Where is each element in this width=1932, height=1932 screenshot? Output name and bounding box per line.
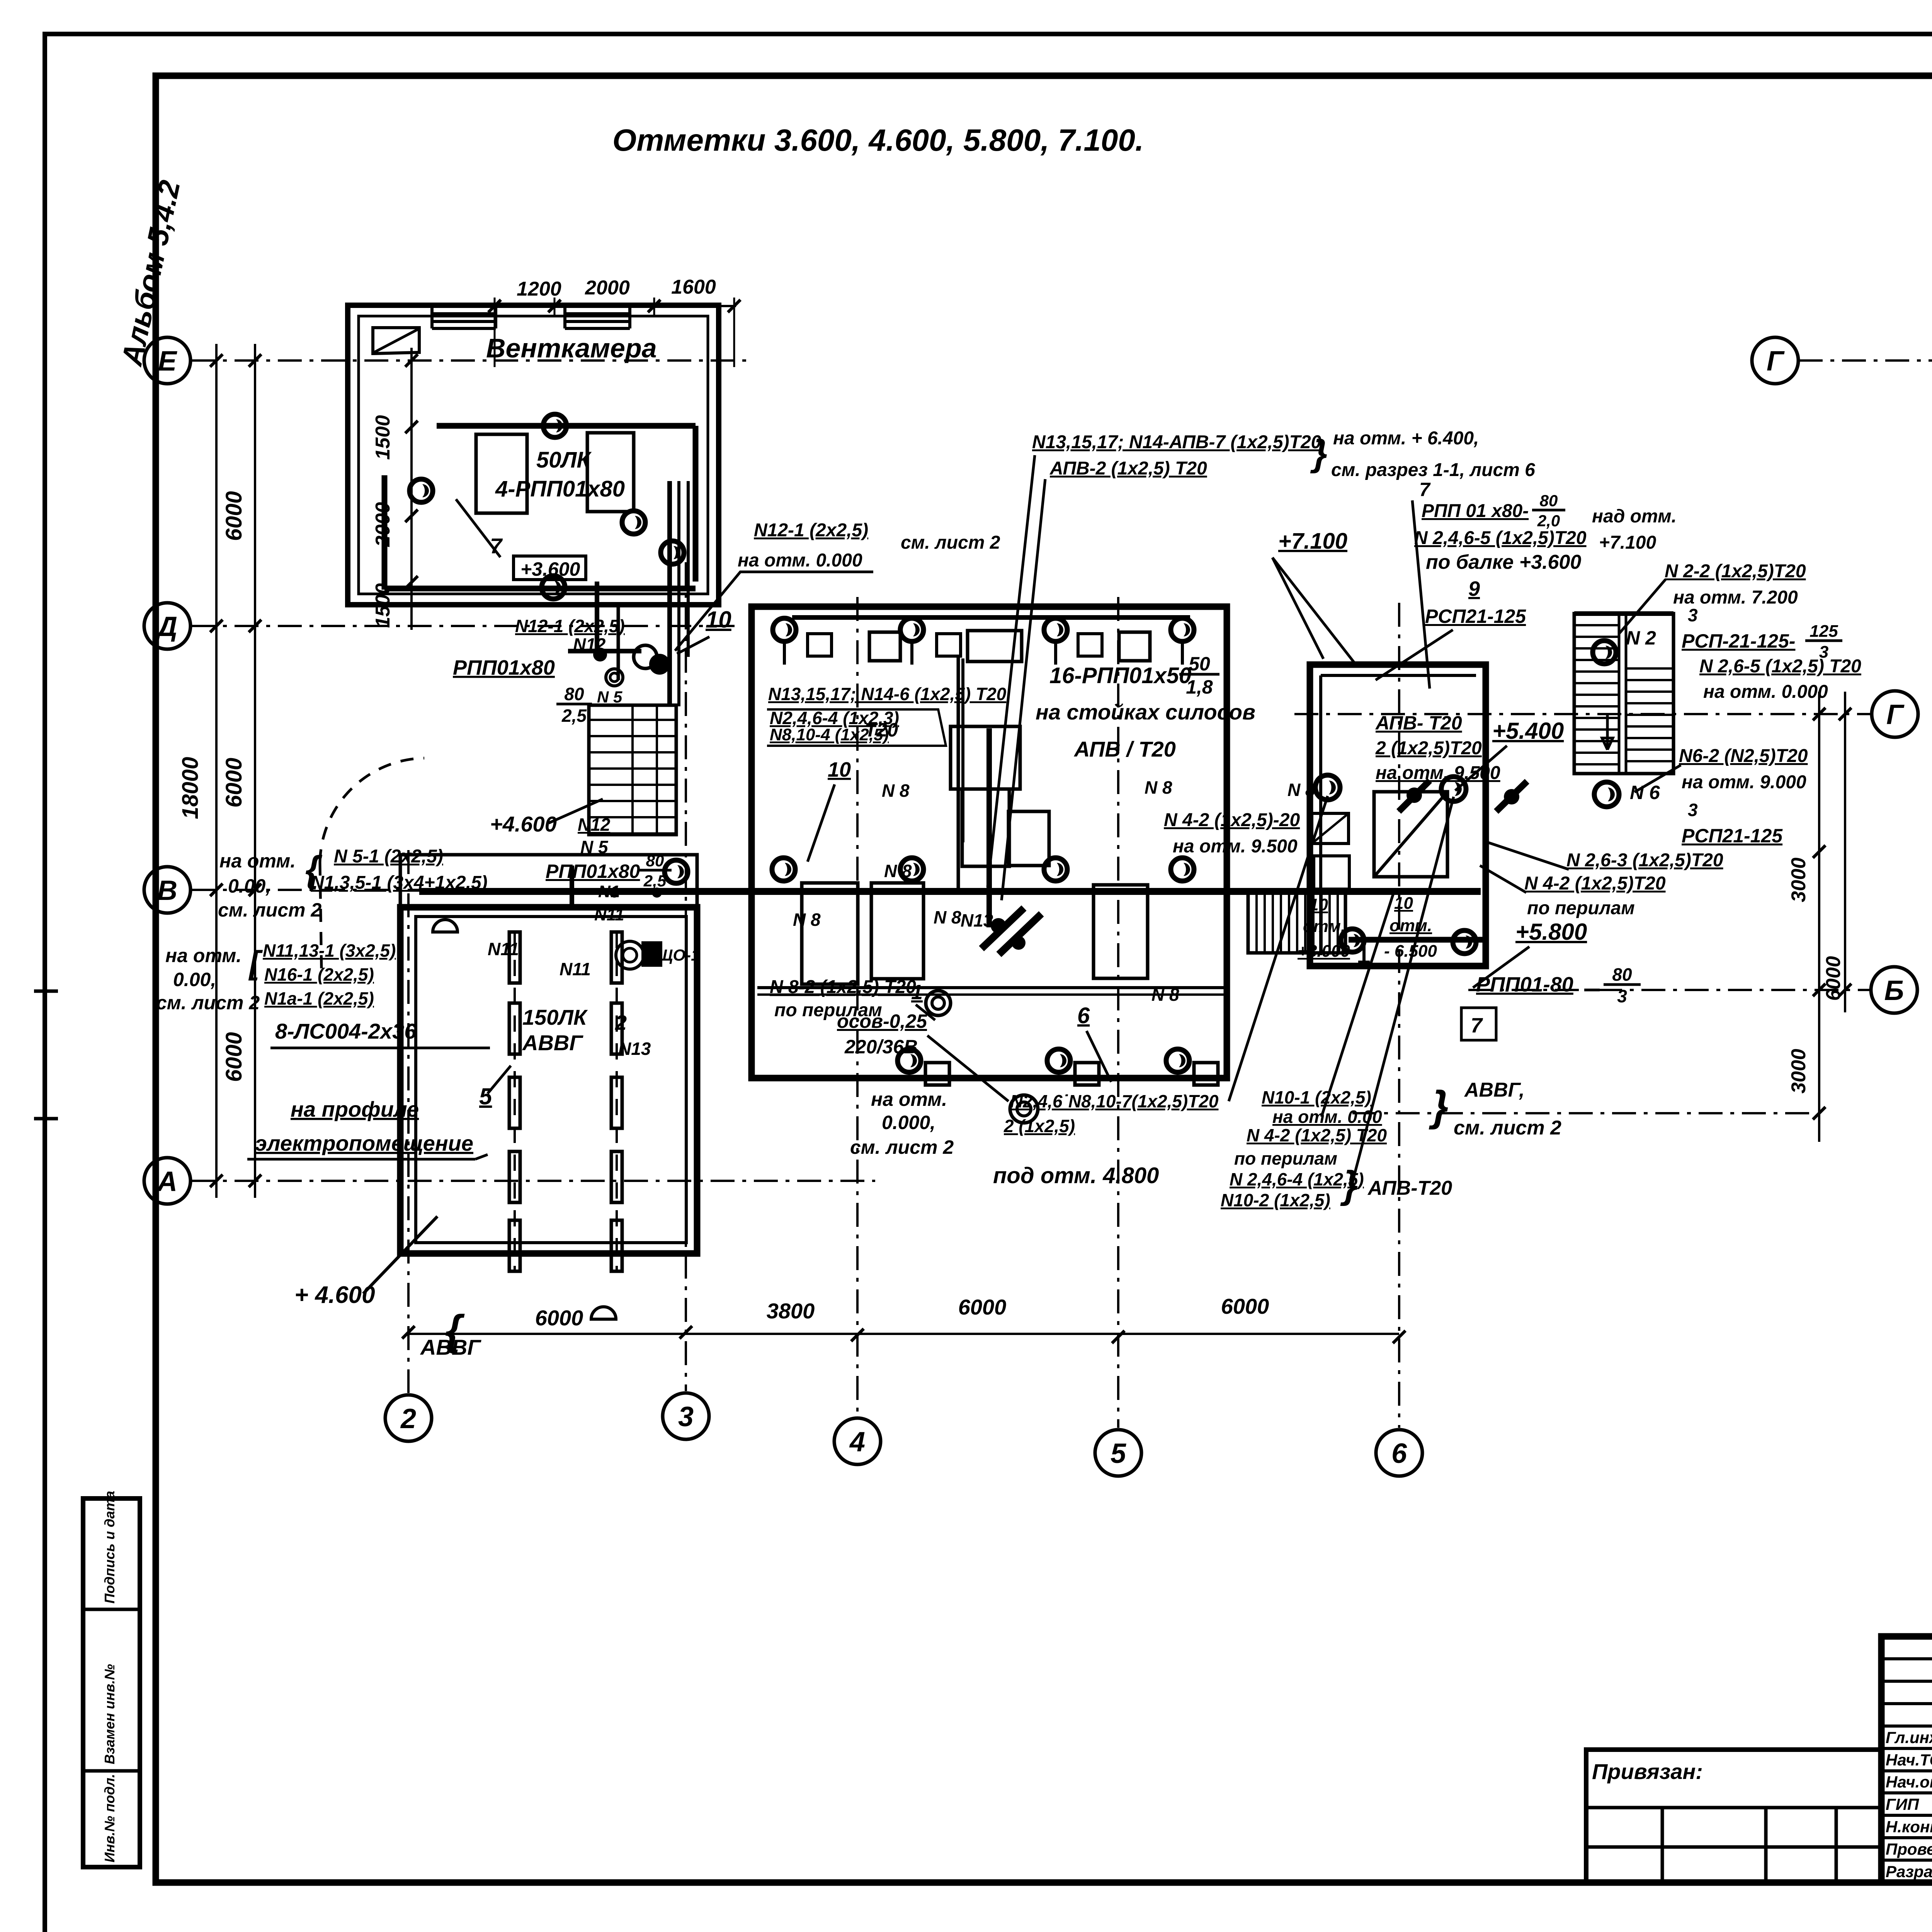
svg-text:1200: 1200 bbox=[517, 278, 561, 300]
svg-text:осов-0,25: осов-0,25 bbox=[837, 1010, 927, 1032]
silo plan outline bbox=[752, 607, 1227, 1078]
stairs right of section bbox=[1574, 614, 1673, 774]
svg-text:N13: N13 bbox=[618, 1039, 651, 1059]
svg-text:50ЛК: 50ЛК bbox=[536, 447, 592, 473]
silo top column flags bbox=[808, 634, 832, 656]
svg-text:Е: Е bbox=[158, 346, 177, 377]
silo bottom flags bbox=[925, 1063, 949, 1085]
ventkamera window hatch 2 bbox=[565, 304, 630, 308]
svg-text:РСП21-125: РСП21-125 bbox=[1425, 605, 1526, 627]
svg-text:0.00,: 0.00, bbox=[173, 969, 216, 990]
fold mark upper bbox=[34, 990, 58, 993]
luminaire bar rows bbox=[509, 932, 520, 983]
svg-text:3000: 3000 bbox=[1787, 1049, 1810, 1094]
dark junction blobs bbox=[1406, 787, 1422, 803]
svg-text:2: 2 bbox=[400, 1403, 416, 1434]
svg-text:1: 1 bbox=[911, 981, 923, 1004]
svg-text:3: 3 bbox=[1617, 986, 1627, 1006]
svg-text:N10-2 (1х2,5): N10-2 (1х2,5) bbox=[1221, 1190, 1330, 1210]
svg-text:ЩО-1: ЩО-1 bbox=[657, 946, 700, 964]
svg-text:электропомещение: электропомещение bbox=[255, 1131, 473, 1155]
axis line A bbox=[191, 1180, 875, 1182]
ventkamera cable run left bbox=[382, 475, 388, 590]
svg-text:N 5-1 (2х2,5): N 5-1 (2х2,5) bbox=[334, 846, 443, 867]
svg-text:4: 4 bbox=[849, 1427, 865, 1458]
svg-text:см. разрез 1-1, лист 6: см. разрез 1-1, лист 6 bbox=[1331, 460, 1535, 480]
svg-text:АПВ / Т20: АПВ / Т20 bbox=[1073, 737, 1176, 761]
stamp signature grid bbox=[1881, 1657, 1932, 1660]
callout 7 box bbox=[1461, 1008, 1496, 1040]
axis circle B bbox=[1871, 967, 1917, 1013]
svg-text:6000: 6000 bbox=[535, 1306, 583, 1330]
corridor wall lines bbox=[667, 481, 672, 706]
svg-text:16-РПП01х50: 16-РПП01х50 bbox=[1049, 663, 1191, 688]
axis line E bbox=[191, 359, 748, 362]
privyazan block bbox=[1586, 1750, 1881, 1883]
svg-text:Подпись и дата: Подпись и дата bbox=[102, 1491, 117, 1604]
dimension chain 6000x3 vertical bbox=[254, 344, 256, 1198]
svg-text:Разраб.: Разраб. bbox=[1886, 1862, 1932, 1881]
dimension chain right vertical 3000-3000 bbox=[1818, 692, 1820, 1142]
svg-text:80: 80 bbox=[564, 684, 584, 704]
column axis 6 line bbox=[1398, 603, 1400, 1428]
svg-text:6: 6 bbox=[1077, 1003, 1090, 1028]
svg-text:см. лист 2: см. лист 2 bbox=[218, 899, 321, 921]
svg-text:10: 10 bbox=[828, 758, 851, 781]
svg-text:N13: N13 bbox=[961, 910, 993, 930]
svg-text:N10-1 (2х2,5): N10-1 (2х2,5) bbox=[1262, 1087, 1371, 1107]
panel circle bbox=[616, 941, 644, 969]
right section bottom cable bbox=[1349, 937, 1486, 943]
svg-text:АВВГ,: АВВГ, bbox=[1464, 1079, 1525, 1101]
svg-text:по перилам: по перилам bbox=[1527, 898, 1635, 918]
silo plan inner top line bbox=[792, 615, 1190, 620]
right section luminaires bbox=[1315, 775, 1340, 800]
svg-text:6000: 6000 bbox=[1221, 1294, 1269, 1318]
leader to ventkamera bbox=[675, 572, 873, 651]
dimension chain right vertical 6000 bbox=[1844, 692, 1846, 1012]
dimension chain bottom 6000-3800-6000-6000 bbox=[408, 1333, 1399, 1335]
svg-text:на отм.: на отм. bbox=[165, 945, 241, 966]
svg-text:3: 3 bbox=[1688, 605, 1698, 625]
svg-text:0.000,: 0.000, bbox=[882, 1112, 935, 1133]
svg-text:на отм.: на отм. bbox=[219, 850, 296, 872]
axis circle A bbox=[144, 1158, 190, 1204]
column axis 3 line bbox=[685, 562, 687, 1391]
stairs upper landing bbox=[1574, 611, 1673, 616]
electro building upper band bbox=[400, 855, 697, 907]
svg-text:0.00,: 0.00, bbox=[228, 875, 271, 897]
svg-text:125: 125 bbox=[1810, 622, 1838, 641]
svg-text:Провер.: Провер. bbox=[1886, 1840, 1932, 1858]
svg-text:N 2-2 (1х2,5)Т20: N 2-2 (1х2,5)Т20 bbox=[1665, 561, 1806, 582]
svg-text:3: 3 bbox=[1688, 800, 1698, 820]
silo column riser stubs bbox=[783, 641, 786, 665]
svg-text:2,0: 2,0 bbox=[1537, 512, 1560, 530]
svg-text:6000: 6000 bbox=[1822, 956, 1845, 1001]
ventkamera corner detail bbox=[373, 328, 419, 354]
svg-text:8-ЛС004-2х36: 8-ЛС004-2х36 bbox=[275, 1019, 417, 1043]
axis circle 6 bbox=[1376, 1430, 1422, 1476]
svg-text:Венткамера: Венткамера bbox=[486, 333, 657, 363]
ventkamera inner wall bbox=[359, 316, 708, 594]
svg-text:N12: N12 bbox=[578, 815, 611, 835]
electro building inner wall bbox=[416, 917, 686, 1243]
axis circle 4 bbox=[834, 1418, 881, 1464]
axis circle V bbox=[144, 867, 190, 913]
svg-text:N11: N11 bbox=[560, 959, 591, 979]
svg-text:под отм. 4.800: под отм. 4.800 bbox=[993, 1163, 1159, 1188]
cable slashes near cluster bbox=[981, 908, 1024, 949]
bell symbol bbox=[433, 920, 457, 932]
axis circle 2 bbox=[385, 1395, 432, 1441]
svg-text:+3.600: +3.600 bbox=[520, 558, 580, 580]
svg-text:АПВ-2 (1х2,5) Т20: АПВ-2 (1х2,5) Т20 bbox=[1049, 458, 1207, 479]
svg-text:N16-1 (2х2,5): N16-1 (2х2,5) bbox=[264, 964, 374, 985]
svg-text:2000: 2000 bbox=[585, 277, 630, 299]
svg-text:Гл.инж.: Гл.инж. bbox=[1886, 1728, 1932, 1747]
svg-text:N1а-1 (2х2,5): N1а-1 (2х2,5) bbox=[264, 988, 374, 1009]
svg-text:Н.контр.: Н.контр. bbox=[1886, 1818, 1932, 1836]
svg-text:Д: Д bbox=[155, 611, 177, 642]
svg-text:10: 10 bbox=[706, 607, 731, 633]
svg-text:6000: 6000 bbox=[221, 758, 247, 808]
svg-text:10: 10 bbox=[1394, 894, 1413, 913]
svg-text:80: 80 bbox=[646, 852, 664, 870]
svg-text:2: 2 bbox=[615, 1011, 627, 1034]
cable vertical left bbox=[957, 657, 960, 891]
right section inner wall bbox=[1319, 675, 1322, 955]
ventkamera dark lamp bbox=[649, 654, 670, 675]
osov transformer small bbox=[926, 991, 951, 1015]
svg-text:7: 7 bbox=[1419, 479, 1431, 500]
stamp outer box bbox=[1881, 1636, 1932, 1883]
silo central cluster rect 3 bbox=[1009, 811, 1049, 866]
ventkamera equipment cabinet 1 bbox=[476, 434, 527, 513]
svg-text:N 8-2 (1х2,5) Т20: N 8-2 (1х2,5) Т20 bbox=[770, 977, 916, 997]
ventkamera outer wall bbox=[348, 305, 719, 605]
ventkamera luminaire 2 bbox=[410, 479, 433, 502]
svg-text:N 8: N 8 bbox=[884, 861, 912, 881]
svg-text:над отм.: над отм. bbox=[1592, 506, 1677, 527]
svg-text:1,8: 1,8 bbox=[1186, 676, 1213, 698]
svg-text:10: 10 bbox=[1309, 895, 1328, 914]
svg-text:+8.000: +8.000 bbox=[1298, 942, 1350, 961]
svg-text:Инв.№ подл.: Инв.№ подл. bbox=[102, 1774, 117, 1862]
axis line lower right bbox=[1352, 1112, 1816, 1114]
svg-text:N 5: N 5 bbox=[597, 688, 622, 706]
svg-text:6000: 6000 bbox=[221, 491, 247, 541]
axis line B right side bbox=[1468, 989, 1872, 991]
equipment rect right bbox=[1094, 885, 1148, 978]
svg-text:5: 5 bbox=[479, 1083, 493, 1109]
svg-text:+7.100: +7.100 bbox=[1278, 529, 1347, 554]
svg-text:отм.: отм. bbox=[1303, 917, 1345, 936]
axis circle 3 bbox=[663, 1393, 709, 1439]
svg-text:В: В bbox=[157, 875, 177, 906]
svg-text:N12-1 (2х2,5): N12-1 (2х2,5) bbox=[754, 520, 868, 541]
svg-text:80: 80 bbox=[1540, 492, 1558, 510]
svg-text:на отм.: на отм. bbox=[871, 1088, 947, 1110]
axis line G top-right plan bbox=[1799, 359, 1932, 362]
lower leaders from section bbox=[1229, 796, 1328, 1101]
silo plan top notch 1 bbox=[968, 631, 1022, 662]
svg-text:по перилам: по перилам bbox=[1234, 1148, 1337, 1168]
svg-text:5: 5 bbox=[1111, 1438, 1126, 1469]
right section outer wall bbox=[1310, 665, 1486, 966]
svg-text:2 (1х2,5): 2 (1х2,5) bbox=[1003, 1116, 1075, 1136]
svg-text:РСП-21-125-: РСП-21-125- bbox=[1682, 630, 1795, 652]
axis circle G bbox=[1752, 337, 1798, 384]
svg-text:N 8: N 8 bbox=[1151, 985, 1179, 1005]
svg-text:+ 4.600: + 4.600 bbox=[294, 1282, 375, 1308]
svg-text:по балке +3.600: по балке +3.600 bbox=[1426, 551, 1581, 573]
svg-text:см. лист 2: см. лист 2 bbox=[1454, 1117, 1561, 1139]
svg-text:см. лист 2: см. лист 2 bbox=[156, 992, 260, 1014]
panel ShchO-1 dark bbox=[641, 941, 662, 967]
silo plan inner bottom line bbox=[757, 986, 1225, 989]
svg-text:Б: Б bbox=[1884, 975, 1904, 1006]
svg-text:3800: 3800 bbox=[767, 1299, 815, 1323]
svg-text:АВВГ: АВВГ bbox=[522, 1031, 583, 1055]
dimension chain ventkamera 1500-2000-1500 bbox=[410, 348, 413, 630]
building top cable bbox=[570, 866, 574, 907]
ventkamera luminaire 4 bbox=[542, 576, 565, 599]
svg-text:на отм. 0.00: на отм. 0.00 bbox=[1272, 1107, 1382, 1127]
svg-text:150ЛК: 150ЛК bbox=[522, 1005, 588, 1029]
ventkamera cable run top bbox=[437, 423, 696, 429]
svg-text:80: 80 bbox=[1612, 964, 1632, 985]
svg-text:+7.100: +7.100 bbox=[1599, 532, 1656, 553]
svg-text:РСП21-125: РСП21-125 bbox=[1682, 825, 1783, 847]
svg-text:РПП 01 х80-: РПП 01 х80- bbox=[1422, 501, 1529, 521]
svg-text:на отм. 9.500: на отм. 9.500 bbox=[1376, 763, 1500, 783]
svg-text:+5.800: +5.800 bbox=[1515, 919, 1587, 945]
fold mark lower bbox=[34, 1117, 58, 1121]
svg-text:N 8: N 8 bbox=[1145, 777, 1172, 798]
svg-text:N 8: N 8 bbox=[934, 907, 961, 927]
svg-text:Отметки 3.600, 4.600, 5.800, 7: Отметки 3.600, 4.600, 5.800, 7.100. bbox=[612, 123, 1144, 157]
svg-text:на отм. 9.000: на отм. 9.000 bbox=[1682, 772, 1806, 793]
svg-text:Г: Г bbox=[1886, 699, 1905, 730]
svg-text:N11,13-1 (3х2,5): N11,13-1 (3х2,5) bbox=[263, 940, 396, 961]
svg-text:на отм. + 6.400,: на отм. + 6.400, bbox=[1333, 428, 1479, 449]
equipment rect left 2 bbox=[871, 883, 923, 979]
svg-text:РПП01х80: РПП01х80 bbox=[546, 861, 640, 882]
ventkamera cable drop bbox=[595, 582, 599, 657]
column axis 4 line bbox=[856, 597, 859, 1416]
axis circle 5 bbox=[1095, 1430, 1141, 1476]
ventkamera cable run right bbox=[693, 426, 699, 582]
svg-text:РПП01-80: РПП01-80 bbox=[1476, 973, 1573, 996]
ventkamera luminaire 5 bbox=[661, 541, 684, 564]
svg-text:N 5: N 5 bbox=[580, 837, 609, 857]
svg-text:N 8: N 8 bbox=[793, 910, 821, 930]
silo columns bottom row bbox=[898, 1049, 921, 1072]
hatch block right (stairs) bbox=[1248, 890, 1345, 953]
svg-text:N2,4,6˙N8,10-7(1х2,5)Т20: N2,4,6˙N8,10-7(1х2,5)Т20 bbox=[1010, 1091, 1219, 1111]
svg-text:N 2: N 2 bbox=[1626, 627, 1656, 649]
svg-text:N 8: N 8 bbox=[882, 781, 910, 801]
ventkamera window hatch 1 bbox=[432, 304, 496, 308]
cable riser second line bbox=[961, 658, 964, 842]
svg-text:9: 9 bbox=[1468, 577, 1480, 600]
axis circle D bbox=[144, 603, 190, 649]
svg-text:N 2,6-3 (1х2,5)Т20: N 2,6-3 (1х2,5)Т20 bbox=[1566, 850, 1723, 871]
svg-text:Привязан:: Привязан: bbox=[1592, 1759, 1703, 1784]
svg-text:N 2,4,6-5 (1х2,5)Т20: N 2,4,6-5 (1х2,5)Т20 bbox=[1414, 528, 1587, 548]
column axis 2 line bbox=[407, 850, 410, 1393]
ventkamera equipment cabinet 2 bbox=[587, 433, 634, 512]
svg-text:на профиле: на профиле bbox=[291, 1097, 419, 1121]
ventkamera luminaire 3 bbox=[622, 511, 645, 534]
ventkamera junction dot bbox=[593, 648, 607, 662]
svg-text:АПВ- Т20: АПВ- Т20 bbox=[1375, 712, 1462, 734]
svg-text:отм.: отм. bbox=[1389, 916, 1432, 935]
svg-text:на стойках силосов: на стойках силосов bbox=[1036, 700, 1255, 724]
svg-text:Г: Г bbox=[1767, 346, 1785, 377]
svg-text:+5.400: +5.400 bbox=[1492, 718, 1564, 744]
svg-text:N 2,6-5 (1х2,5) Т20: N 2,6-5 (1х2,5) Т20 bbox=[1699, 656, 1861, 677]
svg-text:на отм. 0.000: на отм. 0.000 bbox=[1703, 682, 1828, 702]
svg-text:+4.600: +4.600 bbox=[490, 812, 557, 836]
svg-text:7: 7 bbox=[1471, 1014, 1483, 1037]
cable main run horizontal bbox=[419, 888, 1481, 895]
svg-text:Нач.ТО: Нач.ТО bbox=[1886, 1751, 1932, 1769]
svg-text:N13,15,17; N14-АПВ-7 (1х2,5)Т2: N13,15,17; N14-АПВ-7 (1х2,5)Т20 bbox=[1032, 432, 1321, 452]
svg-text:Т20: Т20 bbox=[865, 719, 898, 741]
svg-text:см. лист 2: см. лист 2 bbox=[901, 532, 1000, 553]
svg-text:220/36В: 220/36В bbox=[844, 1036, 918, 1058]
svg-text:А: А bbox=[156, 1166, 177, 1197]
svg-text:ГИП: ГИП bbox=[1886, 1795, 1919, 1813]
svg-text:N 4-2 (1х2,5)Т20: N 4-2 (1х2,5)Т20 bbox=[1524, 873, 1666, 894]
cable vertical center bbox=[986, 728, 992, 927]
svg-text:50: 50 bbox=[1189, 653, 1210, 675]
small rect 2 bbox=[1314, 856, 1349, 889]
svg-text:1600: 1600 bbox=[671, 276, 716, 298]
svg-text:N12-1 (2х2,5): N12-1 (2х2,5) bbox=[515, 616, 625, 636]
axis line V bbox=[191, 889, 775, 891]
svg-text:N 4-2 (1х2,5)-20: N 4-2 (1х2,5)-20 bbox=[1164, 810, 1300, 830]
ventkamera luminaire 1 bbox=[543, 414, 566, 437]
svg-text:2 (1х2,5)Т20: 2 (1х2,5)Т20 bbox=[1375, 738, 1482, 759]
stairs left block bbox=[589, 705, 676, 835]
bunker trapezoid bbox=[1374, 792, 1447, 877]
svg-text:6000: 6000 bbox=[958, 1295, 1007, 1319]
axis circle G2 bbox=[1872, 691, 1918, 737]
column axis 5 line bbox=[1117, 597, 1119, 1428]
svg-text:N11: N11 bbox=[488, 939, 519, 959]
axis line G2 right side bbox=[1294, 713, 1872, 715]
silo columns mid row bbox=[772, 858, 795, 881]
silo central cluster rect 2 bbox=[962, 789, 1009, 866]
ventkamera lamp circle bbox=[606, 669, 623, 686]
dimension chain ventkamera top 1200-2000-1600 bbox=[495, 305, 736, 307]
svg-text:АПВ-Т20: АПВ-Т20 bbox=[1367, 1177, 1452, 1199]
osov transformer bbox=[1010, 1095, 1038, 1123]
svg-text:на отм. 0.000: на отм. 0.000 bbox=[738, 550, 862, 571]
silo central cluster rect 1 bbox=[951, 726, 1020, 789]
svg-text:см. лист 2: см. лист 2 bbox=[850, 1136, 954, 1158]
svg-text:Нач.отд.: Нач.отд. bbox=[1886, 1773, 1932, 1791]
dimension chain 18000 vertical bbox=[215, 344, 218, 1198]
svg-text:N11: N11 bbox=[594, 905, 624, 924]
door swing arc bbox=[320, 758, 424, 862]
svg-text:3: 3 bbox=[678, 1401, 694, 1432]
svg-text:на отм. 9.500: на отм. 9.500 bbox=[1173, 836, 1298, 857]
electro building outer wall bbox=[400, 907, 697, 1253]
svg-text:N6-2 (N2,5)Т20: N6-2 (N2,5)Т20 bbox=[1679, 746, 1808, 766]
bottom-left inventory strip bbox=[83, 1498, 140, 1867]
silo columns top row bbox=[773, 618, 796, 641]
svg-text:18000: 18000 bbox=[178, 757, 203, 819]
svg-text:3000: 3000 bbox=[1787, 857, 1810, 902]
svg-text:6000: 6000 bbox=[221, 1032, 247, 1082]
svg-text:2,5: 2,5 bbox=[561, 706, 587, 726]
mark +3.600 box bbox=[514, 556, 586, 580]
ventkamera cable run bottom bbox=[384, 586, 696, 592]
luminaire at building top bbox=[665, 860, 688, 883]
svg-text:N13,15,17; N14-6 (1х2,5) Т20: N13,15,17; N14-6 (1х2,5) Т20 bbox=[768, 684, 1007, 704]
svg-text:4-РПП01х80: 4-РПП01х80 bbox=[495, 476, 625, 502]
silo plan top notch 2 bbox=[1119, 632, 1150, 661]
axis line D bbox=[191, 625, 736, 627]
axis circle E bbox=[144, 337, 190, 384]
svg-text:1500: 1500 bbox=[372, 415, 394, 460]
small rect 1 bbox=[1312, 813, 1349, 844]
svg-text:Взамен инв.№: Взамен инв.№ bbox=[102, 1664, 117, 1764]
silo plan top notch 3 bbox=[869, 632, 900, 661]
svg-text:6: 6 bbox=[1391, 1438, 1407, 1469]
equipment rect left 1 bbox=[802, 883, 858, 984]
svg-text:РПП01х80: РПП01х80 bbox=[453, 656, 555, 679]
